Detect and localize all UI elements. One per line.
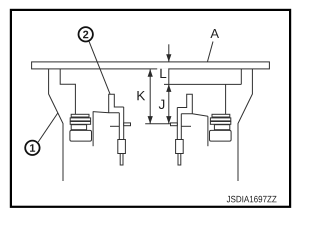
right tower xyxy=(177,94,192,113)
right body edge xyxy=(207,116,209,146)
left tower xyxy=(109,94,124,113)
right pin block xyxy=(176,140,184,154)
left funnel wall xyxy=(49,69,63,181)
dimension L/J line xyxy=(168,44,170,61)
left pin right edge xyxy=(123,107,125,140)
arrowhead J bottom (down) xyxy=(166,116,171,124)
right seat line xyxy=(181,114,208,117)
arrowhead J top (up) xyxy=(166,84,171,92)
arrowhead L top (down) xyxy=(166,54,171,62)
right crossbar tick xyxy=(171,123,178,126)
gap in plate edge at label L xyxy=(157,68,168,70)
border frame xyxy=(11,10,290,207)
digit 2 xyxy=(83,31,88,39)
label L xyxy=(160,69,166,78)
left seat line xyxy=(93,112,120,113)
leader line label A xyxy=(208,42,214,62)
left pin tip xyxy=(120,154,123,166)
right pin right edge xyxy=(180,114,182,140)
right pin tip xyxy=(178,154,181,166)
right stack bar 1 xyxy=(212,114,230,117)
flange reference line (J top) xyxy=(164,83,241,85)
left step wall xyxy=(60,69,75,114)
left stack nut xyxy=(71,125,86,130)
right pin left edge xyxy=(176,108,178,140)
label J xyxy=(159,100,165,109)
leader line callout 2 xyxy=(89,41,110,94)
dimension K line xyxy=(149,69,151,124)
callout circle 1 xyxy=(25,141,39,155)
right stack bar 2 xyxy=(210,118,230,121)
right stack nut xyxy=(214,125,229,130)
arrowhead K bottom (down) xyxy=(148,116,153,124)
left stack bar 3 xyxy=(70,122,90,125)
plate A xyxy=(32,62,270,69)
left pin block xyxy=(118,140,126,154)
callout circle 2 xyxy=(79,27,93,41)
right step wall xyxy=(240,69,242,84)
left stack bar 2 xyxy=(70,118,90,121)
left stack body rect xyxy=(70,130,92,141)
label A xyxy=(210,29,219,38)
leader line callout 1 xyxy=(38,113,58,142)
right stack bar 3 xyxy=(210,122,230,125)
digit 1 xyxy=(30,144,35,152)
right lower flange line xyxy=(181,125,191,127)
left body edge xyxy=(92,112,94,147)
right stack body rect xyxy=(210,130,232,141)
arrowhead K top (up) xyxy=(148,69,153,77)
right funnel wall xyxy=(238,69,252,181)
left pin left edge xyxy=(118,113,120,140)
left crossbar tick xyxy=(124,123,131,126)
left lower flange line xyxy=(110,125,119,127)
bottom reference line (K/J bottom) xyxy=(145,123,177,125)
label K xyxy=(137,91,145,100)
left stack bar 1 xyxy=(71,114,89,117)
right stack feed wall xyxy=(225,84,227,114)
figure code xyxy=(227,196,230,202)
